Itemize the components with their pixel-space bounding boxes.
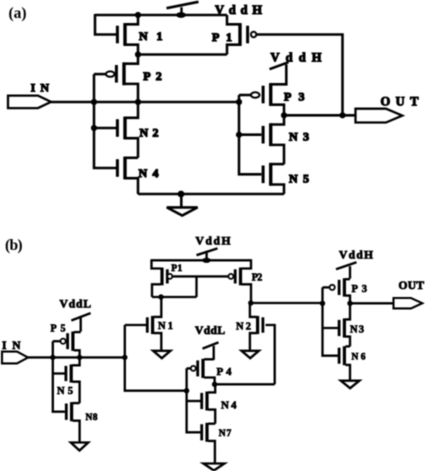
svg-text:N3: N3	[350, 324, 364, 335]
svg-text:VddL: VddL	[195, 325, 225, 337]
svg-text:N1: N1	[158, 321, 173, 332]
svg-text:P2: P2	[252, 273, 262, 284]
svg-text:VddH: VddH	[339, 250, 373, 262]
svg-text:N7: N7	[219, 429, 232, 439]
svg-text:N2: N2	[236, 321, 251, 332]
svg-text:VddL: VddL	[60, 299, 92, 311]
svg-text:P1: P1	[171, 264, 182, 274]
svg-text:OUT: OUT	[399, 280, 425, 292]
svg-text:N8: N8	[86, 413, 98, 423]
svg-text:(b): (b)	[5, 237, 23, 254]
svg-text:(a): (a)	[9, 5, 27, 22]
svg-text:OUT: OUT	[381, 94, 420, 108]
svg-text:IN: IN	[2, 340, 21, 352]
svg-text:VddH: VddH	[196, 236, 231, 248]
svg-text:IN: IN	[31, 80, 50, 94]
